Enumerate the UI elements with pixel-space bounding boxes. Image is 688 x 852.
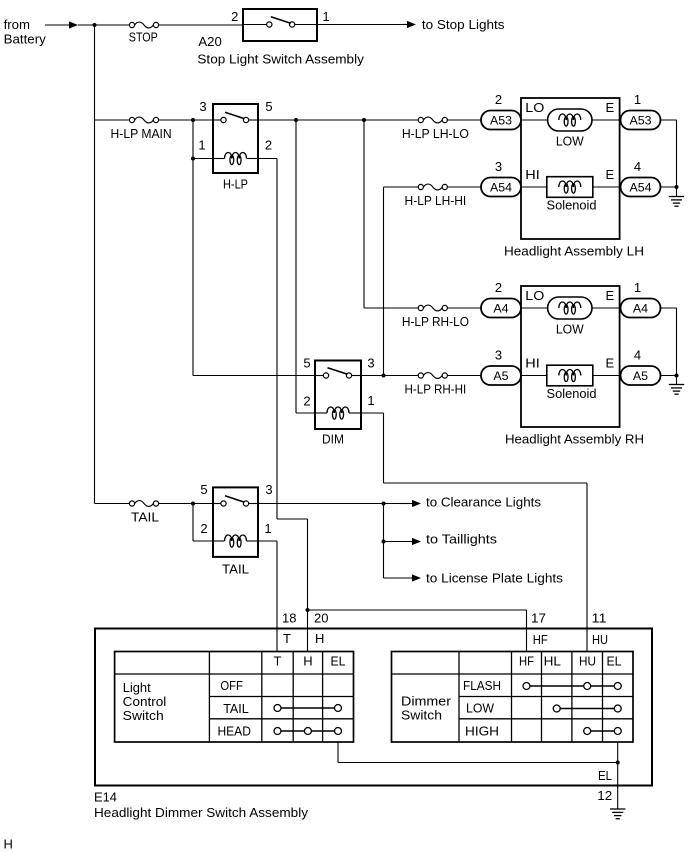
svg-text:1: 1 [264,521,271,536]
svg-text:A54: A54 [629,181,651,195]
ground EL [610,809,625,819]
node from Battery label [4,17,47,47]
pin 2 A20 [231,9,238,24]
svg-text:A5: A5 [493,369,508,383]
svg-text:Battery: Battery [4,32,47,47]
svg-text:Stop Light Switch Assembly: Stop Light Switch Assembly [197,52,364,67]
svg-text:E: E [606,288,615,303]
svg-text:3: 3 [495,347,502,362]
label HIGH row [465,724,499,739]
wire A4 to ground [660,307,677,309]
relay DIM box [315,361,361,430]
wire dimmer EL to ground [617,742,619,809]
contacts TAIL row [274,705,342,712]
label E [606,100,615,115]
pin 3 DIM [367,355,374,370]
label EL wire [598,768,612,783]
relay DIM coil [315,407,361,419]
wire TAIL fuse to relay [158,503,213,505]
svg-text:Headlight Assembly RH: Headlight Assembly RH [505,432,644,447]
svg-text:TAIL: TAIL [131,509,159,524]
label Headlight Assembly LH [504,244,644,259]
svg-text:1: 1 [367,393,374,408]
svg-text:4: 4 [634,159,641,174]
wire light control EL down [338,742,618,763]
svg-text:5: 5 [200,482,207,497]
svg-text:H-LP: H-LP [223,176,248,191]
svg-text:Dimmer: Dimmer [401,693,452,708]
label Solenoid [547,386,597,401]
node to Stop Lights label [422,17,505,32]
svg-text:A53: A53 [629,114,651,128]
node junction taillights [382,540,386,544]
svg-text:H: H [303,654,312,669]
headlight assembly LH box [521,98,620,239]
wire fuse to connector A5 [447,375,481,377]
svg-text:Switch: Switch [123,708,164,723]
contacts FLASH row [523,683,621,690]
node LH ground junction [675,185,679,189]
solenoid [521,177,620,198]
contacts HIGH row [584,728,622,735]
label light control header EL [331,654,346,669]
wire TAIL pin 1 to T column [258,541,277,652]
svg-text:HEAD: HEAD [217,724,251,739]
fuse H-LP RH-LO [402,305,469,329]
wire H-LP pin 5 output [258,119,419,121]
switch A20 contacts [243,17,317,27]
label Stop Light Switch Assembly [197,52,364,67]
svg-text:H-LP MAIN: H-LP MAIN [111,126,172,141]
label T wire [283,631,291,646]
svg-text:HIGH: HIGH [465,724,499,739]
label HI [525,355,540,370]
label HI [525,167,540,182]
svg-text:3: 3 [367,355,374,370]
pin 1 A20 [322,9,329,24]
svg-text:to Taillights: to Taillights [426,532,498,547]
label TAIL row [223,701,249,716]
connector A54 pin 4 [620,159,661,197]
wire fuse to connector A54 [447,186,481,188]
svg-text:E: E [606,355,615,370]
label OFF [220,678,242,693]
wire battery to H-LP MAIN fuse [95,119,130,121]
contacts LOW row [553,705,621,712]
label E [606,167,615,182]
connector A54 pin 3 [481,159,521,197]
label to Clearance Lights [426,495,542,510]
node junction HF branch [306,608,310,612]
wire TAIL coil feed [193,504,213,542]
label relay H-LP [223,176,248,191]
svg-text:1: 1 [322,9,329,24]
relay TAIL coil [213,535,258,547]
label FLASH [463,678,501,693]
svg-text:to Clearance Lights: to Clearance Lights [426,495,542,510]
svg-text:4: 4 [634,347,641,362]
label light control header H [303,654,312,669]
relay DIM switch contacts [315,368,361,378]
wire fuse to connector A53 [447,119,481,121]
svg-text:5: 5 [303,355,310,370]
svg-text:2: 2 [231,9,238,24]
wire battery vertical [94,25,96,504]
svg-text:HU: HU [592,632,608,647]
label Headlight Dimmer Switch Assembly [94,805,309,820]
wire RH ground vertical [676,308,678,376]
wire junction down to pin 1 [192,120,194,159]
relay H-LP box [213,104,258,173]
relay H-LP switch contacts [213,112,258,122]
svg-text:HU: HU [579,654,596,669]
svg-text:T: T [274,654,282,669]
pin 11 label [592,610,607,625]
contacts HEAD row [274,728,342,735]
pin 1 DIM [367,393,374,408]
svg-text:LOW: LOW [556,321,585,336]
svg-text:3: 3 [199,99,206,114]
fuse H-LP LH-HI [405,184,467,208]
svg-text:DIM: DIM [322,432,344,447]
wire A5 to ground [660,375,677,377]
svg-text:Solenoid: Solenoid [547,386,597,401]
node junction EL [616,761,620,765]
relay TAIL box [213,487,258,557]
label E14 [94,790,117,805]
svg-text:2: 2 [495,280,502,295]
label Solenoid [547,198,597,213]
label HU wire [592,632,608,647]
label Light Control Switch [123,680,167,723]
svg-text:Solenoid: Solenoid [547,198,597,213]
svg-text:H-LP RH-HI: H-LP RH-HI [405,382,467,397]
svg-text:OFF: OFF [220,678,242,693]
svg-text:E: E [606,167,615,182]
svg-text:1: 1 [634,280,641,295]
pin 5 DIM [303,355,310,370]
wire H-LP pin 1 stub [193,158,213,160]
pin 3 TAIL [265,482,272,497]
fuse H-LP MAIN [111,117,172,141]
wire battery horizontal [78,24,130,26]
bulb LOW [521,297,620,319]
wire STOP fuse to switch A20 [158,24,243,26]
svg-text:3: 3 [265,482,272,497]
wire TAIL pin 3 to clearance lights [258,500,421,507]
pin 2 H-LP [265,138,272,153]
pin 2 DIM [303,394,310,409]
wire A54 to ground [660,186,677,188]
svg-text:A5: A5 [633,369,648,383]
wire battery to TAIL fuse [95,503,130,505]
node junction headlight feed [362,118,366,122]
svg-text:1: 1 [634,92,641,107]
svg-text:2: 2 [303,394,310,409]
fuse H-LP RH-HI [405,373,467,397]
svg-text:STOP: STOP [129,30,158,45]
label dimmer header HF [519,654,534,669]
svg-text:HF: HF [533,632,548,647]
pin 2 TAIL [200,521,207,536]
svg-text:17: 17 [531,610,546,625]
wire DIM pin 1 to HU [361,413,587,652]
ground RH [669,376,684,395]
fuse STOP [129,22,159,45]
label relay TAIL [222,562,249,577]
label LO [525,100,544,115]
label LOW [556,321,585,336]
svg-text:FLASH: FLASH [463,678,501,693]
label dimmer header HU [579,654,596,669]
svg-text:A4: A4 [633,302,648,316]
wire vertical to RH-LO row [364,120,419,308]
node battery junction [93,23,97,27]
svg-text:T: T [283,631,291,646]
label dimmer header HL [544,654,561,669]
label A20 [198,34,221,49]
pin 12 label [597,788,612,803]
svg-text:18: 18 [282,610,297,625]
svg-text:Switch: Switch [401,707,442,722]
label E [606,355,615,370]
node junction H-LP MAIN [191,118,195,122]
label E [606,288,615,303]
wire HF branch [308,610,527,652]
label light control header T [274,654,282,669]
svg-text:1: 1 [198,138,205,153]
svg-text:to License Plate Lights: to License Plate Lights [426,570,564,585]
connector A5 pin 4 [620,347,661,385]
svg-text:LOW: LOW [556,133,585,148]
svg-text:from: from [4,17,30,32]
svg-text:LO: LO [525,288,544,303]
label relay DIM [322,432,344,447]
svg-text:A53: A53 [490,114,512,128]
svg-text:EL: EL [331,654,346,669]
label LOW [556,133,585,148]
node junction pin 1 [191,157,195,161]
svg-text:H-LP RH-LO: H-LP RH-LO [402,314,469,329]
headlight assembly RH box [521,286,620,427]
svg-text:LOW: LOW [466,701,495,716]
connector A4 pin 1 [620,280,661,318]
svg-text:Headlight Assembly LH: Headlight Assembly LH [504,244,644,259]
wire to taillights arrow [384,538,422,545]
svg-text:TAIL: TAIL [223,701,249,716]
label LOW row [466,701,495,716]
label page H [4,837,13,852]
svg-text:A20: A20 [198,34,221,49]
pin 1 TAIL [264,521,271,536]
light control switch table [115,652,354,743]
headlight dimmer switch assembly E14 box [95,629,652,786]
wire vertical to DIM coil [296,120,315,413]
dimmer switch table [392,652,634,743]
node junction TAIL [191,502,195,506]
svg-text:EL: EL [598,768,612,783]
svg-text:TAIL: TAIL [222,562,249,577]
svg-text:A54: A54 [490,181,512,195]
relay H-LP coil [213,153,258,165]
svg-text:Headlight Dimmer Switch Assemb: Headlight Dimmer Switch Assembly [94,805,309,820]
svg-text:H-LP LH-HI: H-LP LH-HI [405,193,467,208]
node junction DIM pin 3 [382,374,386,378]
node junction clearance [382,502,386,506]
svg-text:LO: LO [525,100,544,115]
relay TAIL switch contacts [213,496,258,506]
svg-text:2: 2 [200,521,207,536]
svg-text:A4: A4 [493,302,508,316]
wire to license plate arrow [384,574,422,581]
label HEAD row [217,724,251,739]
label dimmer header EL [606,654,621,669]
svg-text:HI: HI [525,355,540,370]
wire clearance branch vertical [383,504,385,579]
label Dimmer Switch [401,693,452,722]
pin 1 H-LP [198,138,205,153]
svg-text:HF: HF [519,654,534,669]
svg-text:Light: Light [123,680,151,695]
svg-text:2: 2 [265,138,272,153]
bulb LOW [521,109,620,131]
pin 17 label [531,610,546,625]
svg-text:12: 12 [597,788,612,803]
svg-text:to Stop Lights: to Stop Lights [422,17,505,32]
svg-text:20: 20 [314,610,329,625]
label HF wire [533,632,548,647]
svg-text:5: 5 [265,99,272,114]
svg-text:3: 3 [495,159,502,174]
svg-text:11: 11 [592,610,607,625]
pin 5 TAIL [200,482,207,497]
ground LH [669,187,684,206]
wire fuse to relay H-LP [158,119,213,121]
wire vertical to DIM pin 5 [193,159,315,376]
label to Taillights [426,532,498,547]
pin 20 label [314,610,329,625]
wire H-LP pin 2 to H column [258,159,308,652]
svg-text:H: H [315,631,324,646]
label H wire [315,631,324,646]
wire battery feed arrow [45,21,78,28]
connector A53 pin 1 [620,92,661,130]
node junction DIM coil feed [294,118,298,122]
wire A53 to ground [660,119,677,121]
wire A20 to stop lights arrow [317,21,416,28]
connector A53 pin 2 [481,92,521,130]
connector A4 pin 2 [481,280,521,318]
svg-text:HI: HI [525,167,540,182]
svg-text:Control: Control [123,694,167,709]
fuse H-LP LH-LO [402,117,469,141]
label Headlight Assembly RH [505,432,644,447]
svg-text:EL: EL [606,654,621,669]
svg-text:E: E [606,100,615,115]
pin 5 H-LP [265,99,272,114]
wire LH ground vertical [676,120,678,187]
svg-text:H-LP LH-LO: H-LP LH-LO [402,126,469,141]
wire DIM pin 3 output [361,375,419,377]
label LO [525,288,544,303]
svg-text:H: H [4,837,13,852]
fuse TAIL [129,501,159,525]
label to License Plate Lights [426,570,564,585]
pin 3 H-LP [199,99,206,114]
wire fuse to connector A4 [447,307,481,309]
wire battery to STOP fuse [95,24,130,26]
pin 18 label [282,610,297,625]
switch A20 box [243,9,317,41]
svg-text:HL: HL [544,654,561,669]
svg-text:E14: E14 [94,790,117,805]
node RH ground junction [675,374,679,378]
wire LH-HI corner [384,187,419,376]
svg-text:2: 2 [495,92,502,107]
solenoid [521,365,620,386]
connector A5 pin 3 [481,347,521,385]
